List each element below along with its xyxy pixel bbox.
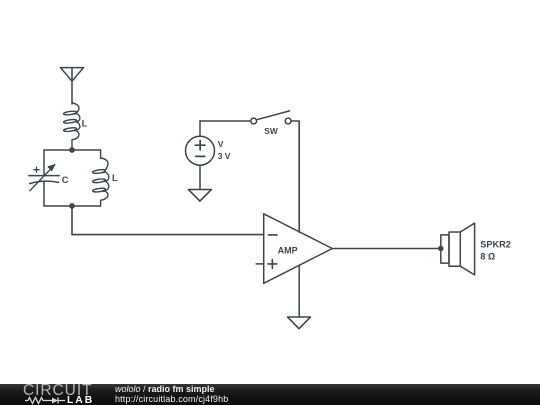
wire tank to op-amp input bbox=[72, 206, 264, 235]
svg-text:3 V: 3 V bbox=[218, 151, 231, 161]
node tank-bottom junction bbox=[69, 203, 75, 209]
svg-text:8 Ω: 8 Ω bbox=[480, 251, 495, 261]
CircuitLab logo: resistor + diode rule bbox=[24, 395, 94, 405]
node speaker junction bbox=[438, 246, 444, 252]
wire tank top bbox=[44, 149, 101, 151]
inductor L1 bbox=[63, 103, 87, 150]
svg-text:SPKR2: SPKR2 bbox=[480, 240, 511, 250]
CircuitLab logo: CIRCUIT wordmark bbox=[23, 382, 93, 400]
inductor L2 bbox=[92, 150, 118, 206]
footer bar bbox=[0, 384, 540, 405]
node tank-top junction bbox=[69, 147, 75, 153]
wire V to switch bbox=[200, 120, 251, 122]
footer title text bbox=[115, 384, 215, 394]
capacitor C (variable, polarized) bbox=[29, 150, 69, 206]
svg-text:C: C bbox=[62, 175, 69, 185]
svg-text:SW: SW bbox=[264, 126, 278, 136]
svg-text:L: L bbox=[112, 173, 118, 183]
svg-text:AMP: AMP bbox=[278, 246, 298, 256]
switch SW bbox=[251, 111, 291, 136]
speaker SPKR2 8ohm bbox=[441, 223, 511, 275]
footer url text bbox=[115, 394, 228, 404]
wire op-amp output to speaker bbox=[332, 248, 441, 250]
op-amp U1 (AMP) bbox=[256, 214, 332, 317]
voltage source V 3V bbox=[186, 121, 231, 190]
wire tank bottom bbox=[44, 205, 101, 207]
ground (below V) bbox=[188, 190, 211, 202]
ground (below op-amp) bbox=[288, 317, 311, 329]
svg-text:V: V bbox=[218, 139, 224, 149]
antenna ANT1 bbox=[61, 68, 84, 104]
CircuitLab logo: LAB wordmark bbox=[67, 395, 94, 405]
wire switch to op-amp supply bbox=[291, 121, 299, 232]
svg-text:L: L bbox=[82, 119, 88, 129]
